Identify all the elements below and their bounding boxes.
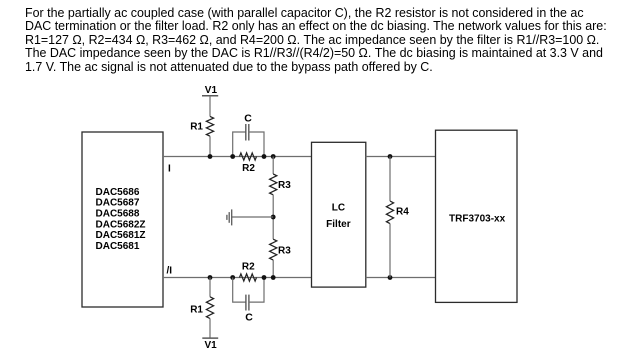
capacitor C (top) plates: [245, 124, 247, 141]
svg-text:/I: /I: [167, 265, 173, 276]
LC filter box: [312, 142, 366, 287]
wire: bottom rail /I from DAC to LC filter: [163, 277, 312, 279]
resistor R2 (bottom): [240, 274, 257, 281]
wire R4 to bottom rail: [389, 224, 391, 278]
svg-text:R3: R3: [278, 245, 291, 256]
junction dot C left / top rail: [230, 154, 235, 159]
svg-text:C: C: [244, 112, 252, 124]
TRF3703-xx box U2: [436, 130, 518, 302]
capacitor C (top) bypass loop right wire: [249, 132, 264, 157]
svg-text:DAC5686DAC5687DAC5688DAC5682ZD: DAC5686DAC5687DAC5688DAC5682ZDAC5681ZDAC…: [96, 187, 146, 252]
capacitor C (top) bypass loop left wire: [233, 132, 246, 157]
wire center node to ground: [232, 216, 274, 218]
voltage source V1 (top): [202, 95, 218, 97]
svg-text:R1: R1: [190, 305, 203, 316]
junction dot C right / bottom rail: [262, 275, 267, 280]
svg-text:C: C: [245, 312, 253, 324]
junction dot R3 branch / bottom rail: [271, 275, 276, 280]
wire top rail to R4: [389, 157, 391, 202]
svg-text:R4: R4: [396, 206, 409, 217]
junction dot C left / bottom rail: [230, 275, 235, 280]
junction dot center node: [271, 215, 276, 220]
ground: [231, 209, 233, 225]
resistor R3 (bottom): [270, 239, 277, 260]
wire: bottom rail LC filter to TRF3703: [366, 277, 436, 279]
DAC box U1: [82, 132, 163, 307]
caption paragraph: [25, 7, 607, 75]
resistor R1 (top): [206, 116, 213, 136]
junction dot R3 branch / top rail: [271, 154, 276, 159]
wire V1 to R1 (top): [209, 96, 211, 117]
resistor R2 (top): [240, 153, 257, 160]
svg-text:I: I: [168, 163, 171, 174]
svg-text:V1: V1: [205, 85, 218, 96]
svg-text:LC: LC: [332, 202, 345, 213]
svg-text:Filter: Filter: [326, 219, 351, 230]
svg-text:R2: R2: [242, 261, 255, 272]
resistor R1 (bottom): [206, 297, 213, 319]
junction dot C right / top rail: [262, 154, 267, 159]
svg-text:V1: V1: [204, 340, 217, 351]
capacitor C (bottom) bypass loop left wire: [233, 278, 246, 303]
wire: top rail I from DAC to LC filter: [163, 156, 312, 158]
wire R3 (top) to center node: [272, 195, 274, 239]
capacitor C (bottom) bypass loop right wire: [249, 278, 264, 303]
wire R3 (bottom) to bottom rail: [272, 260, 274, 278]
resistor R3 (top): [270, 174, 277, 195]
junction dot R4 / bottom rail: [388, 275, 393, 280]
wire R1 to top rail: [209, 136, 211, 156]
svg-text:R3: R3: [278, 180, 291, 191]
wire R1 to V1 (bottom): [209, 319, 211, 339]
wire top rail to R3 (top): [272, 157, 274, 175]
capacitor C (bottom) plates: [245, 295, 247, 311]
wire: top rail LC filter to TRF3703: [366, 156, 436, 158]
junction dot R1/top rail: [208, 154, 213, 159]
voltage source V1 (bottom): [202, 337, 218, 339]
svg-text:R1: R1: [190, 121, 203, 132]
junction dot R1 / bottom rail: [208, 275, 213, 280]
wire bottom rail to R1 (bottom): [209, 278, 211, 297]
svg-text:R2: R2: [242, 163, 255, 174]
svg-text:TRF3703-xx: TRF3703-xx: [449, 214, 506, 225]
resistor R4: [386, 201, 393, 224]
junction dot R4 / top rail: [388, 154, 393, 159]
